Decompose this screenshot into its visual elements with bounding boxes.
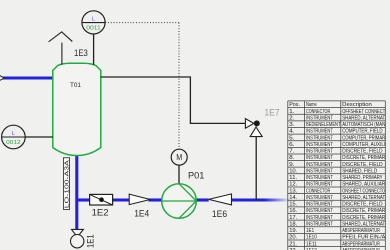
svg-text:0011: 0011	[86, 26, 101, 32]
svg-text:10.: 10.	[289, 168, 297, 174]
svg-text:INSTRUMENT: INSTRUMENT	[306, 162, 333, 168]
svg-text:INSTRUMENT: INSTRUMENT	[306, 135, 333, 141]
svg-text:6.: 6.	[289, 142, 295, 148]
svg-text:PFEIL FÜR EIN-/A: PFEIL FÜR EIN-/A	[342, 234, 385, 241]
svg-text:T01: T01	[70, 82, 81, 89]
svg-text:INSTRUMENT: INSTRUMENT	[306, 175, 333, 181]
svg-text:P01: P01	[188, 170, 204, 180]
svg-text:SHARED, ALTERNAT: SHARED, ALTERNAT	[342, 195, 385, 201]
svg-text:L: L	[12, 131, 15, 137]
svg-text:ABSPERRARMATUR: ABSPERRARMATUR	[342, 228, 380, 234]
svg-text:DISCRETE, FIELD: DISCRETE, FIELD	[342, 149, 382, 155]
svg-text:1E11: 1E11	[306, 241, 317, 247]
svg-text:1E10: 1E10	[306, 235, 317, 241]
svg-text:COMPUTER, AUXILI: COMPUTER, AUXILI	[342, 142, 385, 148]
svg-text:BEDIENELEMENT: BEDIENELEMENT	[306, 122, 341, 128]
svg-text:2.: 2.	[289, 115, 295, 121]
svg-text:3.: 3.	[289, 122, 295, 128]
svg-text:Name: Name	[306, 102, 317, 108]
svg-text:1E3: 1E3	[74, 48, 88, 58]
svg-text:Pos.: Pos.	[289, 102, 300, 108]
svg-text:INSTRUMENT: INSTRUMENT	[306, 168, 333, 174]
svg-text:1E1: 1E1	[306, 228, 314, 234]
svg-text:15.: 15.	[289, 202, 297, 208]
svg-text:INSTRUMENT: INSTRUMENT	[306, 215, 333, 221]
svg-text:INSTRUMENT: INSTRUMENT	[306, 129, 333, 135]
svg-text:1E7: 1E7	[264, 107, 279, 117]
svg-text:INSTRUMENT: INSTRUMENT	[306, 155, 333, 161]
svg-text:INSTRUMENT: INSTRUMENT	[306, 149, 333, 155]
svg-text:20.: 20.	[289, 235, 297, 241]
svg-text:SHARED, AUXILIAR: SHARED, AUXILIAR	[342, 182, 385, 188]
svg-text:1E6: 1E6	[212, 209, 227, 219]
svg-text:INSTRUMENT: INSTRUMENT	[306, 195, 333, 201]
svg-text:INSTRUMENT: INSTRUMENT	[306, 115, 333, 121]
svg-text:INSTRUMENT: INSTRUMENT	[306, 221, 333, 227]
svg-text:1E4: 1E4	[134, 209, 149, 219]
svg-text:17.: 17.	[289, 215, 297, 221]
svg-text:INSTRUMENT: INSTRUMENT	[306, 208, 333, 214]
svg-text:SHARED, FIELD: SHARED, FIELD	[342, 168, 377, 174]
svg-text:COMPUTER, FIELD: COMPUTER, FIELD	[342, 129, 382, 135]
svg-text:13.: 13.	[289, 188, 297, 194]
svg-text:7.: 7.	[289, 149, 295, 155]
svg-text:SHARED, PRIMARY: SHARED, PRIMARY	[342, 175, 382, 181]
svg-text:1E1: 1E1	[86, 234, 96, 248]
svg-text:21.: 21.	[289, 241, 297, 247]
svg-text:Description: Description	[342, 102, 372, 108]
svg-text:M: M	[176, 153, 182, 162]
svg-text:DISCRETE, FIELD: DISCRETE, FIELD	[342, 162, 382, 168]
svg-text:16.: 16.	[289, 208, 297, 214]
svg-text:OFFSHEET CONNECT: OFFSHEET CONNECT	[342, 109, 385, 115]
svg-text:INSTRUMENT: INSTRUMENT	[306, 142, 333, 148]
svg-text:LO-100-A3A: LO-100-A3A	[64, 160, 70, 208]
svg-text:9.: 9.	[289, 162, 295, 168]
svg-text:AUTOMATISCH (MAN: AUTOMATISCH (MAN	[342, 122, 385, 128]
svg-text:INSTRUMENT: INSTRUMENT	[306, 182, 333, 188]
svg-text:CONNECTOR: CONNECTOR	[306, 188, 330, 194]
svg-text:18.: 18.	[289, 221, 297, 227]
svg-text:0012: 0012	[6, 140, 21, 146]
svg-text:1.: 1.	[289, 109, 295, 115]
svg-text:CONNECTOR: CONNECTOR	[306, 109, 330, 115]
svg-text:11.: 11.	[289, 175, 297, 181]
svg-text:14.: 14.	[289, 195, 297, 201]
svg-text:5.: 5.	[289, 135, 295, 141]
svg-text:L: L	[92, 17, 95, 23]
svg-text:ABSPERRARMATUR: ABSPERRARMATUR	[342, 241, 380, 247]
svg-text:DISCRETE, PRIMAR: DISCRETE, PRIMAR	[342, 215, 385, 221]
svg-text:4.: 4.	[289, 129, 295, 135]
svg-text:COMPUTER, PRIMAR: COMPUTER, PRIMAR	[342, 135, 385, 141]
svg-text:SHARED, ALTERNAT: SHARED, ALTERNAT	[342, 221, 385, 227]
svg-text:DISCRETE, PRIMAR: DISCRETE, PRIMAR	[342, 155, 385, 161]
svg-text:SHARED, ALTERNAT: SHARED, ALTERNAT	[342, 115, 385, 121]
svg-text:8.: 8.	[289, 155, 295, 161]
svg-text:DISCRETE, FIELD: DISCRETE, FIELD	[342, 202, 382, 208]
svg-text:INSTRUMENT: INSTRUMENT	[306, 202, 333, 208]
svg-text:19.: 19.	[289, 228, 297, 234]
svg-text:12.: 12.	[289, 182, 297, 188]
svg-text:1E2: 1E2	[92, 208, 109, 218]
svg-text:ONSHEET CONNECTO: ONSHEET CONNECTO	[342, 188, 385, 194]
svg-text:DISCRETE, PRIMAR: DISCRETE, PRIMAR	[342, 208, 385, 214]
